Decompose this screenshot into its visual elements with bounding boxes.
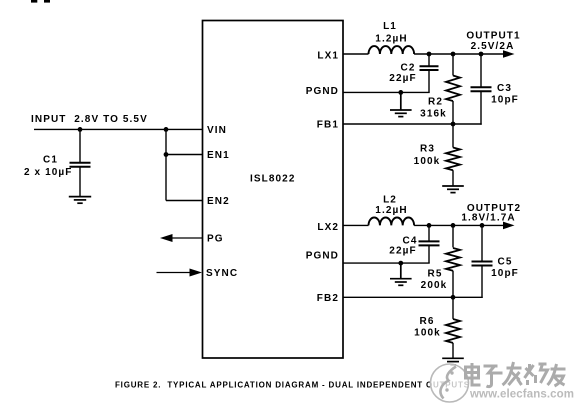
svg-text:FIGURE 2. TYPICAL APPLICATION: FIGURE 2. TYPICAL APPLICATION DIAGRAM - … — [115, 381, 470, 390]
svg-text:FB2: FB2 — [317, 293, 339, 304]
ground at PGND1 — [390, 92, 412, 116]
svg-text:PGND: PGND — [306, 86, 339, 97]
watermark CJK glyph 3 (fa) — [503, 362, 522, 385]
junction dot C2 top — [427, 52, 432, 57]
svg-text:1.8V/1.7A: 1.8V/1.7A — [461, 212, 515, 223]
svg-text:OUTPUT1: OUTPUT1 — [466, 31, 520, 42]
watermark logo circle — [431, 364, 469, 402]
svg-text:100k: 100k — [414, 328, 441, 339]
svg-text:www.elecfans.com: www.elecfans.com — [469, 389, 574, 401]
svg-text:10pF: 10pF — [491, 95, 519, 106]
junction dot PGND2 ground tap — [398, 261, 403, 266]
svg-text:R5: R5 — [428, 269, 443, 280]
svg-text:10pF: 10pF — [491, 268, 519, 279]
output2 arrow — [503, 222, 515, 230]
wire L1 to output1 — [414, 53, 505, 55]
svg-text:22µF: 22µF — [389, 246, 416, 257]
junction dot C5 top — [480, 223, 485, 228]
ground at PGND2 — [390, 263, 412, 285]
junction dot C3 top — [479, 52, 484, 57]
wire FB1 — [343, 123, 482, 125]
capacitor C3 — [471, 54, 492, 125]
pin SYNC with arrow in — [157, 269, 203, 277]
svg-text:L2: L2 — [383, 194, 397, 205]
ground at C1 — [69, 197, 91, 204]
svg-text:SYNC: SYNC — [206, 268, 238, 279]
svg-text:LX1: LX1 — [317, 50, 339, 61]
svg-text:C5: C5 — [498, 257, 513, 268]
capacitor C5 — [472, 225, 493, 298]
junction dot at EN1 — [164, 152, 169, 157]
junction dot FB1/R3 — [451, 122, 456, 127]
wire PGND1 — [343, 91, 430, 93]
resistor R5 — [446, 225, 460, 297]
capacitor C1 — [70, 129, 91, 196]
wire EN vertical — [165, 129, 167, 200]
wire FB2 — [343, 296, 483, 298]
svg-text:PG: PG — [207, 234, 224, 245]
inductor L1 — [369, 46, 415, 54]
watermark CJK glyph 2 (zi) — [484, 366, 503, 387]
resistor R3 — [446, 124, 460, 186]
capacitor C4 — [419, 225, 440, 263]
wire EN1 — [166, 154, 203, 156]
wire LX1 to L1 — [343, 53, 369, 55]
ground at R3 — [442, 186, 464, 193]
watermark CJK glyph 1 (dian) — [466, 363, 481, 385]
svg-text:1.2µH: 1.2µH — [375, 205, 407, 216]
svg-text:C3: C3 — [497, 83, 512, 94]
page top crop mark 1 — [31, 0, 37, 3]
svg-text:100k: 100k — [414, 156, 441, 167]
svg-text:PGND: PGND — [306, 251, 339, 262]
svg-text:C1: C1 — [43, 155, 58, 166]
svg-text:LX2: LX2 — [317, 222, 339, 233]
svg-text:R6: R6 — [420, 316, 435, 327]
junction dot R5 top — [451, 223, 456, 228]
resistor R6 — [446, 297, 460, 358]
inductor L2 — [369, 217, 415, 225]
svg-text:22µF: 22µF — [389, 73, 416, 84]
svg-text:1.2µH: 1.2µH — [375, 33, 407, 44]
svg-text:2.5V/2A: 2.5V/2A — [471, 41, 515, 52]
svg-text:EN2: EN2 — [207, 196, 230, 207]
junction dot C4 top — [427, 223, 432, 228]
junction dot at C1 tap — [78, 127, 83, 132]
svg-text:L1: L1 — [383, 21, 397, 32]
wire PGND2 — [343, 262, 430, 264]
capacitor C2 — [420, 54, 439, 92]
watermark CJK glyph 5 (you) — [548, 364, 566, 386]
svg-text:2 x 10µF: 2 x 10µF — [24, 167, 72, 178]
page top crop mark 2 — [44, 0, 50, 3]
junction dot FB2/R6 — [451, 295, 456, 300]
wire LX2 to L2 — [343, 224, 369, 226]
wire EN2 — [166, 200, 203, 202]
watermark CJK glyph 4 (shao) — [525, 364, 548, 385]
svg-text:316k: 316k — [420, 109, 447, 120]
junction dot R2 top — [451, 52, 456, 57]
pin PG with arrow out — [160, 234, 203, 242]
output1 arrow — [503, 50, 515, 58]
junction dot PGND1 ground tap — [398, 90, 403, 95]
svg-text:EN1: EN1 — [207, 150, 230, 161]
svg-text:INPUT 2.8V TO 5.5V: INPUT 2.8V TO 5.5V — [31, 114, 148, 125]
wire input to VIN — [34, 128, 203, 130]
wire L2 to output2 — [414, 224, 505, 226]
svg-text:R2: R2 — [428, 97, 443, 108]
svg-text:ISL8022: ISL8022 — [250, 174, 296, 185]
svg-text:FB1: FB1 — [317, 120, 339, 131]
op-amp U1 ISL8022 body — [203, 21, 344, 359]
ground at R6 — [442, 358, 464, 365]
svg-text:200k: 200k — [421, 280, 448, 291]
resistor R2 — [446, 54, 460, 124]
svg-text:R3: R3 — [420, 144, 435, 155]
junction dot at EN tap — [164, 127, 169, 132]
svg-text:VIN: VIN — [207, 125, 227, 136]
